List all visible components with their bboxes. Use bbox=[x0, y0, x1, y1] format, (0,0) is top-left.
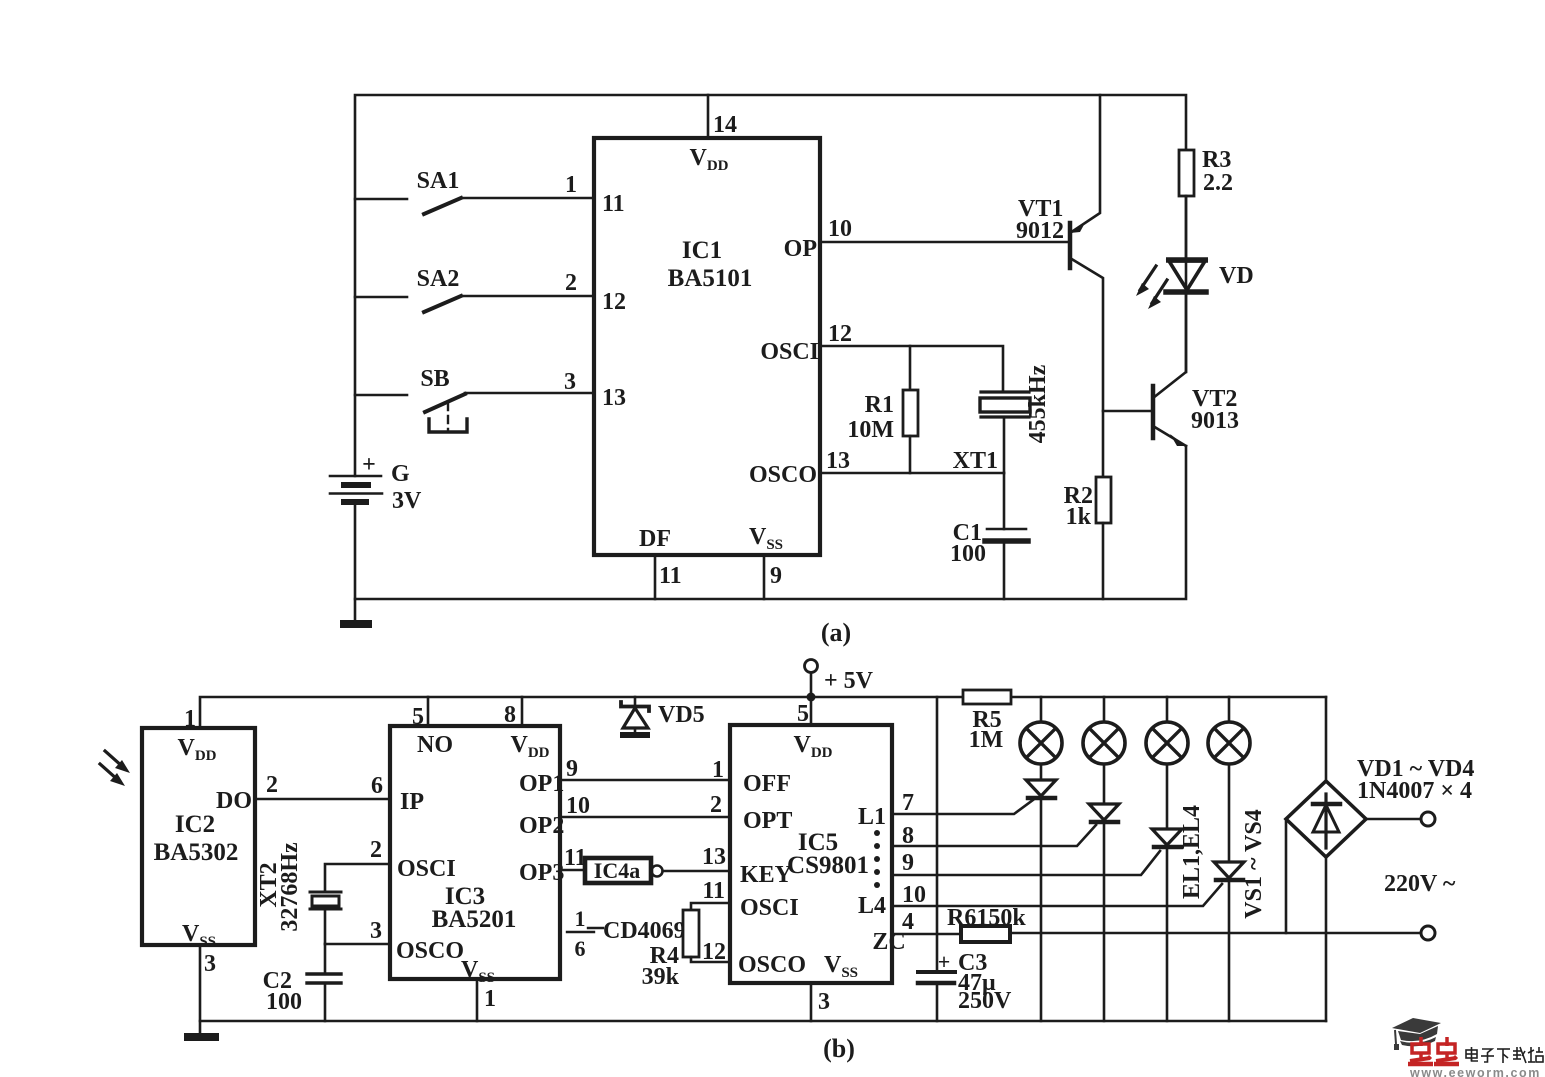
svg-text:220V ~: 220V ~ bbox=[1384, 871, 1456, 897]
svg-text:NO: NO bbox=[417, 732, 453, 758]
IC3 BA5201 box bbox=[390, 726, 560, 986]
pushbutton SB bbox=[355, 366, 594, 432]
thyristor VS2 bbox=[1089, 764, 1119, 1021]
capacitor C1 100 bbox=[950, 473, 1028, 599]
zener diode VD5 bbox=[620, 697, 705, 738]
svg-text:OP: OP bbox=[784, 236, 817, 262]
switch SA1 bbox=[355, 168, 594, 214]
svg-text:VS1 ~ VS4: VS1 ~ VS4 bbox=[1241, 809, 1267, 918]
svg-text:IC4a: IC4a bbox=[594, 858, 640, 883]
svg-text:G: G bbox=[391, 461, 410, 487]
label 1/6 CD4069 bbox=[567, 906, 686, 961]
svg-text:(a): (a) bbox=[821, 618, 851, 647]
svg-text:OSCI: OSCI bbox=[760, 339, 819, 365]
logo character chong 2 (red) bbox=[1434, 1037, 1459, 1064]
thyristor VS1 bbox=[1026, 764, 1056, 1021]
svg-text:5: 5 bbox=[412, 704, 424, 730]
capacitor C2 100 bbox=[263, 944, 341, 1021]
transistor VT2 9013 bbox=[1153, 292, 1239, 446]
svg-text:3: 3 bbox=[370, 918, 382, 944]
node: +5V junction dot bbox=[807, 693, 816, 702]
svg-text:DO: DO bbox=[216, 788, 252, 814]
svg-text:SA2: SA2 bbox=[417, 266, 460, 292]
svg-text:12: 12 bbox=[702, 939, 726, 965]
transistor VT1 9012 bbox=[1016, 95, 1103, 477]
svg-text:+: + bbox=[362, 452, 376, 478]
svg-text:4: 4 bbox=[902, 909, 914, 935]
bridge rectifier VD1-VD4 bbox=[1286, 697, 1474, 1021]
svg-text:OFF: OFF bbox=[743, 771, 791, 797]
svg-text:8: 8 bbox=[504, 702, 516, 728]
svg-text:OPT: OPT bbox=[743, 808, 792, 834]
svg-text:1: 1 bbox=[565, 172, 577, 198]
svg-text:(b): (b) bbox=[823, 1034, 855, 1063]
svg-text:1: 1 bbox=[575, 906, 586, 931]
inverter IC4a bbox=[519, 845, 663, 886]
pin 3 (IC5 Vss) bbox=[811, 983, 830, 1021]
svg-text:OP2: OP2 bbox=[519, 813, 564, 839]
svg-text:10M: 10M bbox=[847, 417, 894, 443]
wire: OSCO pin 13 bbox=[820, 448, 1004, 474]
wire: OP pin 10 to VT1 base bbox=[820, 216, 1068, 242]
svg-text:250V: 250V bbox=[958, 988, 1012, 1014]
svg-text:1k: 1k bbox=[1066, 504, 1092, 530]
lamp EL2 bbox=[1083, 697, 1125, 764]
resistor R1 10M bbox=[847, 346, 918, 473]
svg-text:EL1,EL4: EL1,EL4 bbox=[1179, 805, 1205, 899]
svg-text:100: 100 bbox=[266, 989, 302, 1015]
pin 5 (IC3 NO) bbox=[412, 697, 428, 730]
svg-text:CD4069: CD4069 bbox=[603, 918, 686, 944]
svg-text:2.2: 2.2 bbox=[1203, 170, 1233, 196]
svg-text:9012: 9012 bbox=[1016, 218, 1064, 244]
svg-text:3V: 3V bbox=[392, 488, 422, 514]
svg-text:2: 2 bbox=[710, 792, 722, 818]
svg-text:IC2: IC2 bbox=[175, 811, 215, 838]
svg-text:13: 13 bbox=[602, 385, 626, 411]
wire: bottom rail of section (b) bbox=[200, 1020, 1326, 1023]
svg-text:VD: VD bbox=[1219, 263, 1254, 289]
svg-text:SA1: SA1 bbox=[417, 168, 460, 194]
svg-text:CS9801: CS9801 bbox=[787, 852, 869, 879]
svg-text:12: 12 bbox=[602, 289, 626, 315]
svg-text:14: 14 bbox=[713, 112, 737, 138]
svg-text:OSCO: OSCO bbox=[749, 462, 817, 488]
svg-text:OSCI: OSCI bbox=[740, 895, 799, 921]
resistor R5 1M on top rail bbox=[963, 690, 1011, 753]
op-amp: none; IC1 BA5101 box bbox=[594, 138, 820, 555]
svg-text:6: 6 bbox=[371, 773, 383, 799]
thyristor VS3 bbox=[1152, 764, 1182, 1021]
svg-text:1M: 1M bbox=[969, 727, 1004, 753]
terminal: 220V top bbox=[1366, 812, 1435, 826]
resistor R3 2.2 bbox=[1179, 147, 1233, 259]
svg-text:2: 2 bbox=[370, 837, 382, 863]
pin 5 (IC5 Vdd) bbox=[797, 701, 809, 727]
wire: pin 9 to VS3 gate bbox=[892, 850, 1160, 876]
switch SA2 bbox=[355, 266, 594, 312]
logo character chong 1 (red) bbox=[1408, 1037, 1433, 1064]
wire: pin 10 to VS4 gate bbox=[892, 882, 1222, 908]
svg-text:8: 8 bbox=[902, 823, 914, 849]
svg-text:KEY: KEY bbox=[740, 862, 792, 888]
label (b) bbox=[823, 1034, 855, 1063]
svg-text:BA5101: BA5101 bbox=[668, 265, 753, 292]
capacitor C3 47u 250V bbox=[918, 697, 1012, 1021]
svg-text:9: 9 bbox=[566, 756, 578, 782]
svg-text:9: 9 bbox=[902, 850, 914, 876]
svg-text:OSCO: OSCO bbox=[738, 952, 806, 978]
svg-text:2: 2 bbox=[565, 270, 577, 296]
svg-text:XT1: XT1 bbox=[953, 448, 998, 474]
IC2 BA5302 box bbox=[142, 728, 255, 950]
svg-text:39k: 39k bbox=[642, 964, 680, 990]
lamp EL1 bbox=[1020, 697, 1062, 764]
svg-text:OSCI: OSCI bbox=[397, 856, 456, 882]
svg-text:11: 11 bbox=[602, 191, 625, 217]
svg-text:L1: L1 bbox=[858, 804, 886, 830]
pin 9 (IC1 Vss) bbox=[764, 555, 782, 599]
label VS1~VS4 bbox=[1241, 809, 1267, 918]
svg-text:1N4007 × 4: 1N4007 × 4 bbox=[1357, 778, 1472, 804]
svg-text:12: 12 bbox=[828, 321, 852, 347]
wire: OSCI pin 12 bbox=[820, 321, 1003, 392]
lamp EL4 bbox=[1208, 697, 1250, 764]
ground (section a) bbox=[340, 599, 372, 628]
svg-text:11: 11 bbox=[702, 878, 725, 904]
logo url www.eeworm.com bbox=[1409, 1066, 1541, 1077]
wire: DO pin2 to IP pin6 bbox=[255, 772, 390, 799]
pin 11 (IC1 DF) bbox=[655, 555, 682, 599]
svg-text:+ 5V: + 5V bbox=[824, 668, 874, 694]
svg-text:3: 3 bbox=[204, 951, 216, 977]
svg-text:1: 1 bbox=[712, 757, 724, 783]
svg-text:BA5302: BA5302 bbox=[154, 839, 239, 866]
svg-text:1: 1 bbox=[484, 986, 496, 1012]
logo graduation cap bbox=[1392, 1018, 1441, 1050]
svg-text:3: 3 bbox=[818, 989, 830, 1015]
svg-text:OSCO: OSCO bbox=[396, 938, 464, 964]
resistor R6 150k on ZC wire bbox=[892, 905, 1421, 942]
svg-text:IP: IP bbox=[400, 789, 424, 815]
svg-text:2: 2 bbox=[266, 772, 278, 798]
pin 14 (IC1 Vdd) bbox=[708, 95, 737, 138]
svg-text:3: 3 bbox=[564, 369, 576, 395]
pin 3 (IC2 Vss) bbox=[204, 951, 216, 977]
wire: pin 7 to VS1 gate bbox=[892, 790, 1033, 816]
svg-text:9013: 9013 bbox=[1191, 408, 1239, 434]
svg-text:OP3: OP3 bbox=[519, 860, 564, 886]
svg-text:455kHz: 455kHz bbox=[1025, 364, 1051, 443]
thyristor VS4 bbox=[1214, 764, 1244, 1021]
svg-text:11: 11 bbox=[659, 563, 682, 589]
svg-text:R1: R1 bbox=[865, 392, 894, 418]
LED VD bbox=[1136, 196, 1254, 372]
light arrows into IC2 bbox=[100, 751, 130, 786]
svg-text:10: 10 bbox=[828, 216, 852, 242]
label EL1,EL4 bbox=[1179, 805, 1205, 899]
battery G 3V bbox=[330, 452, 422, 514]
wire: pin 8 to VS2 gate bbox=[892, 823, 1096, 849]
crystal XT1 455kHz bbox=[953, 364, 1051, 474]
wire: IC3 OSCI pin2 to XT2 bbox=[325, 837, 390, 892]
crystal XT2 32768Hz bbox=[256, 842, 341, 944]
pin 8 (IC3 Vdd) bbox=[504, 697, 522, 728]
svg-text:100: 100 bbox=[950, 541, 986, 567]
svg-text:+: + bbox=[938, 949, 951, 974]
svg-text:DF: DF bbox=[639, 526, 671, 552]
svg-text:L4: L4 bbox=[858, 893, 886, 919]
wire: IC4a output to IC5 KEY pin13 bbox=[663, 844, 730, 871]
svg-text:VD5: VD5 bbox=[658, 702, 705, 728]
svg-text:SB: SB bbox=[420, 366, 449, 392]
terminal +5V bbox=[805, 660, 874, 726]
svg-text:13: 13 bbox=[702, 844, 726, 870]
svg-text:BA5201: BA5201 bbox=[432, 906, 517, 933]
logo text dianzi xiazaizhan (black glyph approximations) bbox=[1466, 1047, 1543, 1063]
svg-text:www.eeworm.com: www.eeworm.com bbox=[1409, 1066, 1541, 1077]
wire: IC3 OSCO pin3 bbox=[325, 918, 390, 944]
svg-text:R6150k: R6150k bbox=[947, 905, 1026, 931]
svg-text:10: 10 bbox=[902, 882, 926, 908]
label (a) bbox=[821, 618, 851, 647]
terminal: 220V bottom bbox=[1384, 871, 1456, 940]
svg-text:1: 1 bbox=[184, 706, 196, 732]
svg-text:13: 13 bbox=[826, 448, 850, 474]
wire: top rail of section (b) bbox=[200, 697, 1326, 728]
ground (section b) bbox=[184, 945, 219, 1041]
wire: VT2 base wire bbox=[1103, 410, 1151, 413]
svg-text:6: 6 bbox=[575, 936, 586, 961]
wire: OP2 pin10 to IC5 OPT pin2 bbox=[519, 792, 730, 839]
resistor R2 1k bbox=[1064, 477, 1111, 599]
wire: bottom rail of section (a) bbox=[355, 446, 1186, 599]
svg-text:IC1: IC1 bbox=[682, 237, 722, 264]
IC5 CS9801 box bbox=[730, 725, 906, 983]
lamp EL3 bbox=[1146, 697, 1188, 764]
svg-text:32768Hz: 32768Hz bbox=[277, 842, 303, 932]
resistor R4 39k bbox=[642, 878, 730, 990]
svg-text:5: 5 bbox=[797, 701, 809, 727]
wire: OP1 pin9 to IC5 OFF pin1 bbox=[519, 756, 730, 797]
wire: top rail of section (a) bbox=[355, 95, 1186, 476]
pin 1 (IC2 Vdd) bbox=[184, 706, 196, 732]
svg-text:7: 7 bbox=[902, 790, 914, 816]
svg-text:9: 9 bbox=[770, 563, 782, 589]
svg-text:10: 10 bbox=[566, 793, 590, 819]
pin 1 (IC3 Vss) bbox=[477, 979, 496, 1021]
svg-text:OP1: OP1 bbox=[519, 771, 564, 797]
